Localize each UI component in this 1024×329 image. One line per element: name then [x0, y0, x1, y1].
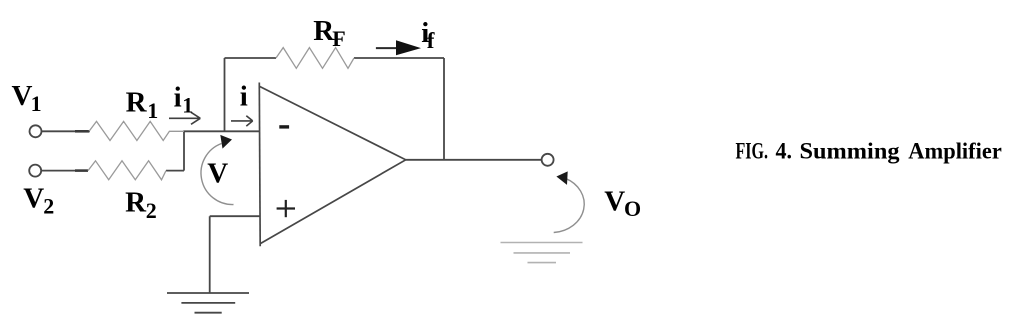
svg-text:2: 2 [146, 198, 157, 223]
svg-text:4.: 4. [776, 138, 793, 164]
svg-text:Summing: Summing [800, 138, 900, 164]
svg-text:V: V [12, 80, 33, 112]
svg-text:1: 1 [147, 98, 158, 123]
svg-text:1: 1 [31, 91, 42, 116]
svg-text:V: V [604, 185, 625, 217]
svg-text:F: F [332, 26, 345, 51]
svg-text:V: V [207, 157, 228, 189]
svg-text:V: V [23, 183, 44, 215]
svg-text:Amplifier: Amplifier [908, 138, 1002, 164]
svg-text:FIG.: FIG. [736, 138, 769, 164]
svg-text:1: 1 [182, 92, 193, 117]
svg-text:i: i [174, 81, 182, 113]
svg-text:f: f [427, 28, 435, 53]
svg-text:O: O [624, 196, 641, 221]
svg-text:R: R [126, 87, 148, 119]
svg-text:i: i [240, 80, 248, 112]
svg-text:2: 2 [43, 194, 54, 219]
svg-text:R: R [125, 187, 147, 219]
